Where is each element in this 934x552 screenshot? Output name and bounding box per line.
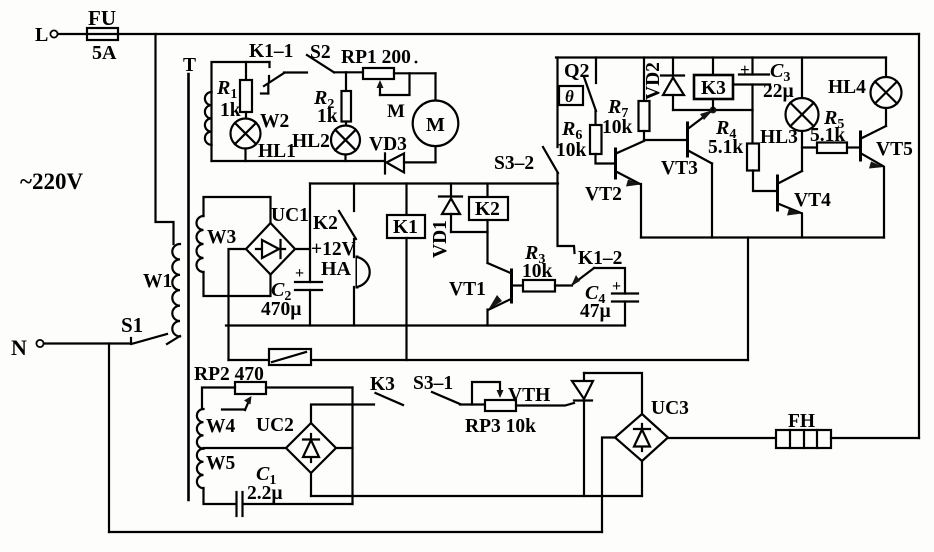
wire VTH anode to UC3 top: [584, 373, 642, 414]
wire UC1 minus drop: [229, 249, 247, 360]
svg-text:N: N: [11, 335, 27, 360]
transistor VT5: [861, 126, 914, 238]
transistor VT1: [449, 263, 523, 326]
svg-text:FU: FU: [88, 6, 116, 30]
svg-text:+12V: +12V: [311, 239, 356, 260]
potentiometer RP1 200: [341, 47, 436, 122]
svg-text:HL3: HL3: [760, 127, 798, 148]
switch S3-1: [413, 373, 460, 404]
svg-text:θ: θ: [565, 87, 574, 106]
wire block bottom rail: [641, 236, 884, 238]
relay coil K2: [469, 184, 508, 264]
svg-text:K2: K2: [475, 199, 500, 220]
diode VD1: [430, 184, 462, 259]
svg-text:10k: 10k: [522, 261, 553, 282]
wire UC2 top to K3 contact: [311, 405, 374, 424]
lamp HL1: [231, 119, 296, 163]
wire K1 return bus: [229, 359, 749, 361]
wire UC3 right to heater: [668, 437, 776, 439]
svg-text:RP1 200: RP1 200: [341, 47, 411, 68]
node L: [35, 24, 58, 46]
svg-text:HL4: HL4: [828, 77, 866, 98]
transformer winding W2: [205, 92, 289, 145]
svg-text:VT1: VT1: [449, 279, 486, 300]
svg-text:10k: 10k: [556, 140, 587, 161]
svg-text:47µ: 47µ: [580, 301, 611, 322]
svg-text:W5: W5: [206, 453, 236, 474]
relay contact K2: [313, 184, 356, 240]
wire UC1 plus output: [295, 248, 310, 250]
contact-unit (slashed box) on return bus: [269, 349, 311, 365]
svg-text:22µ: 22µ: [763, 81, 794, 102]
svg-text:L: L: [35, 24, 48, 46]
svg-text:S3–1: S3–1: [413, 373, 453, 394]
wire N lead: [44, 342, 131, 344]
wire R7 to VT3 base: [644, 139, 687, 141]
capacitor C1 2.2u: [237, 463, 353, 516]
wire common rail (middle box): [226, 324, 625, 326]
svg-text:W3: W3: [207, 227, 237, 248]
wire W2 bottom: [210, 145, 212, 161]
relay contact K1-1: [249, 41, 307, 94]
svg-text:5.1k: 5.1k: [708, 137, 743, 158]
svg-text:K1: K1: [393, 217, 418, 238]
svg-text:+: +: [740, 60, 750, 79]
sensor theta box: [559, 86, 583, 106]
resistor R6 10k: [556, 118, 615, 164]
relay coil K1: [387, 184, 425, 361]
transistor VT2: [585, 141, 644, 238]
svg-text:VTH: VTH: [508, 385, 550, 406]
wire right border: [918, 34, 920, 438]
svg-text:VT3: VT3: [661, 158, 698, 179]
thyristor VTH: [508, 373, 593, 496]
svg-text:~220V: ~220V: [20, 169, 83, 194]
transformer winding W4: [197, 409, 236, 449]
heater FH: [776, 411, 831, 448]
lamp HL2: [292, 126, 360, 162]
svg-text:1k: 1k: [317, 106, 338, 127]
svg-text:K2: K2: [313, 213, 338, 234]
potentiometer RP2 470: [194, 364, 353, 410]
svg-text:VD1: VD1: [430, 220, 451, 258]
svg-text:HL2: HL2: [292, 131, 330, 152]
thermal switch Q2: [564, 58, 596, 126]
wire W2 top rail: [212, 62, 270, 92]
wire top rail: [118, 33, 919, 35]
transformer winding W5: [197, 449, 236, 489]
svg-text:M: M: [387, 101, 405, 122]
wire UC3 left to N bottom rail: [602, 438, 615, 533]
relay contact K1-2: [571, 248, 625, 294]
wire N drop to bottom rail: [108, 344, 110, 533]
wire RP3 to VTH gate: [516, 403, 574, 406]
svg-text:S3–2: S3–2: [494, 153, 534, 174]
svg-text:HL1: HL1: [258, 141, 296, 162]
svg-text:S1: S1: [121, 313, 143, 337]
node N: [11, 335, 44, 360]
wire W4/W5 tap to UC2: [204, 447, 287, 449]
potentiometer RP3 10k: [465, 382, 536, 437]
svg-text:VD2: VD2: [643, 62, 664, 100]
capacitor C4 47u: [580, 278, 638, 326]
svg-text:470µ: 470µ: [261, 299, 302, 320]
wire UC3 bottom to DC bus: [641, 461, 643, 496]
motor M: [413, 73, 459, 162]
svg-text:UC2: UC2: [256, 415, 294, 436]
switch S2: [307, 42, 334, 72]
wire VD2/K3/R4 node: [673, 109, 753, 111]
wire lamp bottom rail: [212, 160, 385, 162]
svg-text:VT4: VT4: [794, 190, 831, 211]
transformer T core: [183, 55, 196, 500]
diode VD2: [643, 58, 684, 111]
bridge rectifier UC1: [246, 205, 309, 275]
svg-text:1k: 1k: [220, 100, 241, 121]
capacitor C3 22u: [733, 58, 794, 111]
svg-text:FH: FH: [788, 411, 815, 432]
wire left border (C2 branch): [309, 184, 311, 283]
svg-text:UC3: UC3: [651, 398, 689, 419]
relay coil K3: [694, 58, 733, 111]
wire UC2 right branch: [336, 447, 353, 449]
svg-text:+: +: [612, 278, 621, 295]
svg-text:5A: 5A: [92, 42, 117, 64]
svg-text:R1: R1: [216, 77, 237, 102]
wire S3-1 to RP3: [460, 403, 485, 405]
wire bottom rail: [109, 531, 602, 533]
bridge rectifier UC3: [615, 398, 689, 461]
wire L-rail drop to W1: [156, 34, 174, 244]
svg-text:W1: W1: [143, 271, 172, 292]
svg-text:K3: K3: [701, 78, 726, 99]
wire heater to right border: [831, 437, 919, 439]
relay contact K3: [370, 374, 403, 405]
svg-text:VT2: VT2: [585, 184, 622, 205]
svg-text:W4: W4: [206, 416, 236, 437]
wire VD1 to K2 coil bottom: [451, 231, 488, 233]
wire +12V top bus: [310, 182, 558, 184]
resistor R2 1k: [313, 72, 351, 127]
svg-text:K3: K3: [370, 374, 395, 395]
switch S1: [121, 313, 167, 344]
transformer winding W1: [143, 244, 180, 344]
transistor VT4: [778, 171, 832, 238]
switch S3-2: [494, 58, 575, 254]
svg-text:W2: W2: [260, 111, 289, 132]
fuse FU 5A: [87, 6, 118, 64]
resistor R5 5.1k: [802, 107, 859, 153]
diode VD3: [369, 134, 436, 174]
wire W2 top: [210, 92, 212, 145]
resistor R4 5.1k: [708, 110, 776, 191]
svg-text:2.2µ: 2.2µ: [247, 483, 283, 504]
wire right border of middle section: [747, 238, 749, 361]
svg-text:K1–1: K1–1: [249, 41, 293, 62]
wire UC2 bottom: [310, 473, 312, 496]
transformer winding W3: [197, 216, 237, 272]
junction dot: [710, 107, 717, 114]
svg-text:UC1: UC1: [271, 205, 309, 226]
wire W3 top to UC1: [204, 197, 271, 223]
lamp HL3: [760, 58, 819, 172]
buzzer HA: [321, 239, 370, 326]
resistor R3 10k: [522, 242, 572, 292]
transistor VT3: [661, 110, 713, 238]
wire W5 bottom: [204, 488, 236, 504]
lamp HL4: [828, 58, 902, 127]
svg-text:RP3 10k: RP3 10k: [465, 416, 536, 437]
svg-text:VD3: VD3: [369, 134, 407, 155]
wire RP2/C1 right riser: [351, 388, 353, 505]
wire W3 bottom to UC1: [204, 272, 271, 296]
svg-text:10k: 10k: [602, 117, 633, 138]
wire DC minus bus: [311, 495, 642, 497]
svg-text:M: M: [426, 114, 445, 136]
svg-text:HA: HA: [321, 258, 352, 280]
resistor R7 10k: [602, 58, 650, 141]
svg-text:5.1k: 5.1k: [810, 125, 845, 146]
capacitor C2 470u: [261, 265, 322, 326]
bridge rectifier UC2: [256, 415, 336, 473]
wire L to fuse: [58, 33, 87, 35]
svg-text:+: +: [295, 265, 304, 282]
svg-text:VT5: VT5: [876, 139, 913, 160]
wire S2 to RP1: [334, 71, 363, 73]
wire block top rail: [556, 56, 886, 58]
resistor R1 1k: [216, 62, 252, 121]
svg-text:K1–2: K1–2: [578, 248, 622, 269]
